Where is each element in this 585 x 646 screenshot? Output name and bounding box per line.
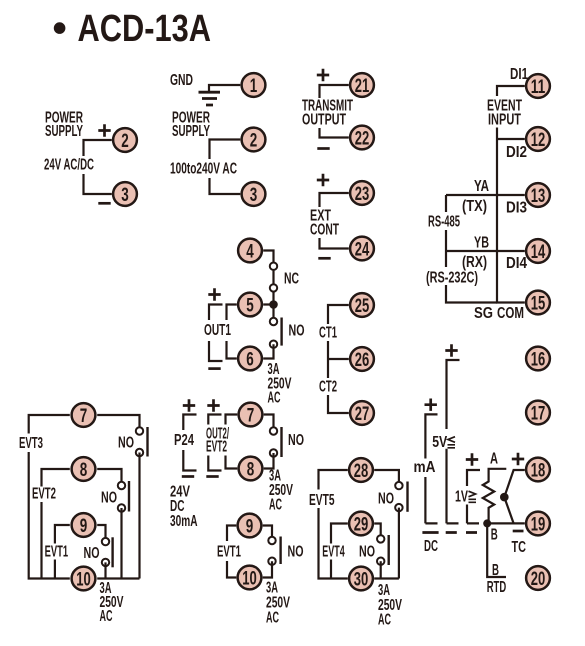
svg-text:CT1: CT1 <box>319 325 337 342</box>
svg-text:NO: NO <box>359 544 375 561</box>
svg-text:8: 8 <box>80 459 88 481</box>
wire terminal 11 to bus <box>497 86 525 96</box>
svg-text:DI3: DI3 <box>506 200 527 217</box>
NO actuator bar <box>388 535 390 565</box>
svg-text:1: 1 <box>250 75 258 97</box>
svg-text:A: A <box>490 451 498 468</box>
RS-485 bracket upper <box>445 195 447 212</box>
terminal 3 <box>242 182 266 206</box>
OUT1 outer bracket top <box>209 305 223 321</box>
wire contact down to rail <box>138 453 140 579</box>
contact circle <box>395 504 402 511</box>
svg-text:14: 14 <box>531 241 546 263</box>
svg-text:B: B <box>492 562 499 579</box>
wire terminal 5 to junction <box>263 305 273 322</box>
svg-text:B: B <box>491 527 498 544</box>
wire node to terminal 3 <box>210 178 241 194</box>
wire node B to terminal 19 <box>487 522 525 524</box>
TC junction dot <box>500 493 509 502</box>
svg-text:CONT: CONT <box>310 222 339 239</box>
svg-text:15: 15 <box>531 293 546 315</box>
svg-text:EVT5: EVT5 <box>309 492 335 509</box>
DC dashes <box>422 531 477 534</box>
terminal 19 <box>526 512 550 536</box>
svg-text:AC: AC <box>268 390 281 407</box>
svg-text:26: 26 <box>355 349 370 371</box>
RTD B wire down <box>487 523 506 577</box>
contact circle <box>270 449 277 456</box>
plus sign mA <box>425 399 437 411</box>
svg-text:100to240V AC: 100to240V AC <box>170 161 237 178</box>
svg-text:OUTPUT: OUTPUT <box>302 112 346 129</box>
terminal 1 <box>242 73 266 97</box>
svg-text:9: 9 <box>246 516 254 538</box>
svg-text:TC: TC <box>512 539 527 556</box>
terminal 10 <box>72 567 96 591</box>
svg-text:7: 7 <box>247 405 255 427</box>
bottom rail right of terminal 10 <box>97 577 139 579</box>
NO actuator bar <box>280 427 282 457</box>
svg-text:SUPPLY: SUPPLY <box>45 123 83 140</box>
OUT2 outer bracket bottom <box>208 456 221 471</box>
EVT5 NO contact chain <box>374 470 399 486</box>
plus sign 1V <box>466 453 478 465</box>
NO actuator bar <box>128 481 130 512</box>
terminal 9 <box>238 514 262 538</box>
contact circle <box>268 558 275 565</box>
svg-text:P24: P24 <box>174 432 194 449</box>
1V bracket upper <box>467 470 480 486</box>
svg-text:2: 2 <box>250 130 258 152</box>
svg-text:28: 28 <box>354 460 369 482</box>
svg-text:YA: YA <box>474 178 489 195</box>
wire terminal 1 to ground <box>209 85 240 91</box>
minus sign <box>317 147 329 150</box>
junction dot <box>269 300 278 309</box>
wire YA to terminal 13 <box>446 194 525 196</box>
contact circle <box>377 535 384 542</box>
terminal 20 <box>526 566 550 590</box>
svg-text:9: 9 <box>80 515 88 537</box>
svg-text:DI4: DI4 <box>506 255 527 272</box>
svg-text:1V: 1V <box>455 489 468 506</box>
RS-485 bracket middle <box>445 230 447 267</box>
svg-text:DI2: DI2 <box>506 144 527 161</box>
svg-text:EVT1: EVT1 <box>45 544 69 561</box>
P24 bracket top <box>183 415 196 431</box>
svg-text:NO: NO <box>378 491 394 508</box>
EVT1 bracket top <box>227 526 236 542</box>
terminal 2 <box>113 128 137 152</box>
svg-text:AC: AC <box>266 610 279 627</box>
wire terminal 2 to node <box>210 140 241 160</box>
svg-text:10: 10 <box>76 569 91 591</box>
contact circle <box>102 538 109 545</box>
minus sign <box>208 367 220 370</box>
NO actuator bar <box>111 537 113 567</box>
contact circle <box>268 537 275 544</box>
terminal 13 <box>526 183 550 207</box>
plus sign P24 <box>183 399 195 411</box>
svg-text:NC: NC <box>284 271 299 288</box>
terminal 10 <box>238 566 262 590</box>
terminal 5 <box>238 293 262 317</box>
mA input line lower with foot <box>425 477 437 523</box>
terminal 27 <box>350 401 374 425</box>
contact circle <box>377 558 384 565</box>
wire terminal 2 left to node <box>84 140 112 156</box>
contact circle <box>270 263 277 270</box>
minus sign <box>318 257 330 260</box>
svg-text:5: 5 <box>246 295 254 317</box>
svg-text:24V AC/DC: 24V AC/DC <box>44 157 94 174</box>
terminal 14 <box>526 239 550 263</box>
plus sign 5V <box>445 344 457 356</box>
contact circle <box>118 504 125 511</box>
svg-text:13: 13 <box>531 185 546 207</box>
svg-text:YB: YB <box>474 235 489 252</box>
svg-text:18: 18 <box>531 460 546 482</box>
plus sign TC <box>512 453 524 465</box>
svg-text:EVT2: EVT2 <box>32 486 56 503</box>
EVT4 wire terminal 29 left down <box>331 524 348 544</box>
NO actuator bar <box>146 427 148 457</box>
terminal 4 <box>238 239 262 263</box>
terminal 22 <box>350 126 374 150</box>
svg-text:29: 29 <box>354 514 369 536</box>
plus sign <box>208 288 220 300</box>
node B dot <box>483 519 491 527</box>
terminal 21 <box>350 73 374 97</box>
svg-text:25: 25 <box>355 295 370 317</box>
wire contact to terminal 8 <box>264 453 274 469</box>
svg-text:SG: SG <box>474 305 493 322</box>
OUT2 inner bracket top <box>226 415 238 425</box>
wire to terminal 22 <box>320 128 349 138</box>
terminal 23 <box>350 181 374 205</box>
EVT1 wire to rail <box>54 560 56 579</box>
svg-text:COM: COM <box>497 305 524 322</box>
svg-text:16: 16 <box>531 349 546 371</box>
svg-text:30mA: 30mA <box>170 513 198 530</box>
5V input line lower with foot <box>447 449 459 524</box>
terminal 29 <box>349 512 373 536</box>
bottom rail right of terminal 30 <box>374 577 399 579</box>
terminal 24 <box>350 237 374 261</box>
wire node to terminal 3 left <box>84 174 112 194</box>
contact circle <box>270 284 277 291</box>
OUT1 inner bracket top <box>227 305 237 321</box>
EVT4 NO contact chain <box>374 524 381 539</box>
contact circle <box>395 482 402 489</box>
wire contact to terminal 6 <box>263 344 273 358</box>
wire CT bus middle <box>328 341 349 378</box>
wire contact to terminal 10 <box>263 561 272 577</box>
plus sign <box>98 124 110 136</box>
svg-text:GND: GND <box>170 72 193 89</box>
1V bracket lower with foot <box>467 505 479 524</box>
svg-text:21: 21 <box>355 75 370 97</box>
svg-text:6: 6 <box>246 349 254 371</box>
terminal 12 <box>526 127 550 151</box>
svg-text:27: 27 <box>355 403 370 425</box>
P24 bracket bottom <box>183 450 196 471</box>
contact circle <box>136 449 143 456</box>
mA input line upper <box>425 414 437 458</box>
wire contact down to rail <box>104 562 106 578</box>
minus sign <box>182 475 194 478</box>
contact circle <box>270 341 277 348</box>
NO actuator bar <box>279 537 281 565</box>
OUT2 inner bracket bottom <box>226 456 238 469</box>
terminal 7 <box>239 403 263 427</box>
contact circle <box>136 427 143 434</box>
NO actuator bar <box>406 482 408 512</box>
svg-text:11: 11 <box>531 76 546 98</box>
OUT1 outer bracket bottom <box>209 341 223 361</box>
terminal 9 <box>72 513 96 537</box>
terminal 15 <box>526 291 550 315</box>
svg-text:INPUT: INPUT <box>488 112 521 129</box>
svg-text:17: 17 <box>531 403 546 425</box>
wire terminal 9 to NO contact <box>263 526 272 541</box>
OUT1 inner bracket bottom <box>227 341 237 359</box>
svg-text:7: 7 <box>80 405 88 427</box>
svg-text:(RS-232C): (RS-232C) <box>426 270 478 287</box>
svg-text:AC: AC <box>269 497 282 514</box>
5V input line upper <box>447 360 460 429</box>
terminal 17 <box>526 401 550 425</box>
svg-text:23: 23 <box>355 183 370 205</box>
svg-text:12: 12 <box>531 129 546 151</box>
minus sign <box>98 202 110 205</box>
terminal 8 <box>239 457 263 481</box>
svg-text:OUT1: OUT1 <box>204 322 231 339</box>
svg-text:NO: NO <box>101 490 117 507</box>
event input bus <box>497 128 525 303</box>
terminal 6 <box>238 347 262 371</box>
wire terminal 25 down <box>328 305 349 324</box>
contact circle <box>102 559 109 566</box>
terminal 7 <box>72 403 96 427</box>
RTD resistor <box>483 469 507 524</box>
terminal 26 <box>350 347 374 371</box>
EVT4 wire to rail <box>330 560 332 579</box>
svg-text:24: 24 <box>355 239 370 261</box>
svg-text:8: 8 <box>247 459 255 481</box>
svg-text:NO: NO <box>84 545 100 562</box>
svg-text:CT2: CT2 <box>319 379 337 396</box>
wire terminal 21 down <box>320 85 349 98</box>
EVT5 wire to bottom rail <box>319 508 348 579</box>
plus sign <box>317 69 329 81</box>
wire to terminal 27 <box>328 395 349 413</box>
wire terminal 4 to NC contact <box>263 251 273 305</box>
terminal 2 <box>242 128 266 152</box>
minus sign <box>206 475 218 478</box>
terminal 11 <box>526 74 550 98</box>
svg-text:10: 10 <box>242 568 257 590</box>
TC wire to terminal 19 <box>504 497 513 523</box>
wire contact down to rail <box>380 561 382 578</box>
svg-text:19: 19 <box>531 514 546 536</box>
EVT2 NO contact chain <box>97 469 121 486</box>
svg-text:(RX): (RX) <box>462 254 487 271</box>
plus sign <box>207 399 219 411</box>
svg-text:5V: 5V <box>432 434 448 451</box>
EVT2 wire to rail <box>40 502 42 579</box>
wire terminal 23 down <box>320 193 349 207</box>
RS-485 bracket lower <box>446 285 497 303</box>
svg-text:RS-485: RS-485 <box>428 214 460 231</box>
contact circle <box>118 482 125 489</box>
svg-text:EVT4: EVT4 <box>322 544 345 561</box>
wire terminal 7 to NO contact <box>264 415 274 432</box>
svg-text:SUPPLY: SUPPLY <box>172 123 210 140</box>
wire bus to terminal 12 <box>497 138 525 140</box>
EVT1 bracket bottom <box>227 561 236 578</box>
svg-text:EVT1: EVT1 <box>217 544 241 561</box>
svg-text:EVT3: EVT3 <box>19 435 43 452</box>
EVT3 wire terminal 7 left down <box>29 415 70 434</box>
svg-text:(TX): (TX) <box>462 198 487 215</box>
svg-text:3: 3 <box>250 184 258 206</box>
terminal 8 <box>72 457 96 481</box>
svg-text:NO: NO <box>118 435 134 452</box>
terminal 25 <box>350 293 374 317</box>
EVT3 wire to bottom rail <box>29 452 70 579</box>
svg-text:20: 20 <box>531 568 546 590</box>
bullet <box>54 22 66 34</box>
terminal 28 <box>349 458 373 482</box>
wire YB to terminal 14 <box>446 250 525 252</box>
svg-text:mA: mA <box>414 459 436 476</box>
terminal 3 <box>113 182 137 206</box>
EVT5 wire terminal 28 left down <box>319 470 348 490</box>
terminal 16 <box>526 347 550 371</box>
terminal 18 <box>526 458 550 482</box>
wire contact down to rail <box>398 508 400 579</box>
svg-text:2: 2 <box>121 130 129 152</box>
wire contact down to rail <box>120 508 122 579</box>
svg-text:AC: AC <box>100 608 113 625</box>
svg-text:EVT2: EVT2 <box>206 439 227 456</box>
EVT3 NO contact chain <box>97 415 139 431</box>
svg-text:NO: NO <box>288 432 304 449</box>
EVT2 wire terminal 8 left down <box>42 469 70 487</box>
svg-text:DI1: DI1 <box>510 66 528 83</box>
svg-text:22: 22 <box>355 128 370 150</box>
svg-text:NO: NO <box>288 544 304 561</box>
svg-text:DC: DC <box>424 538 438 555</box>
EVT1 NO contact chain <box>97 525 105 542</box>
OUT2 outer bracket top <box>208 415 221 425</box>
svg-text:NO: NO <box>289 323 305 340</box>
wire to terminal 24 <box>320 238 349 249</box>
EVT1 wire terminal 9 left down <box>55 525 70 544</box>
svg-text:RTD: RTD <box>487 579 507 596</box>
terminal 30 <box>349 567 373 591</box>
svg-text:ACD-13A: ACD-13A <box>78 8 212 50</box>
minus sign TC <box>513 530 524 533</box>
TC wire to terminal 18 <box>504 470 525 497</box>
contact circle <box>270 318 277 325</box>
svg-text:3: 3 <box>121 184 129 206</box>
ground <box>199 92 221 105</box>
NO actuator bar <box>280 318 282 346</box>
svg-text:AC: AC <box>378 612 391 629</box>
contact circle <box>270 427 277 434</box>
svg-text:30: 30 <box>354 569 369 591</box>
svg-text:4: 4 <box>246 241 254 263</box>
plus sign <box>317 174 329 186</box>
